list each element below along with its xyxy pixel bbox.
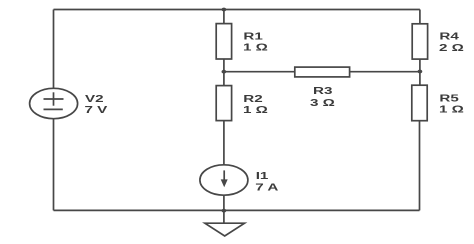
svg-text:I1: I1 — [256, 169, 269, 181]
svg-text:1 Ω: 1 Ω — [439, 103, 464, 115]
svg-text:3 Ω: 3 Ω — [310, 96, 335, 108]
svg-text:R3: R3 — [313, 84, 332, 96]
svg-text:1 Ω: 1 Ω — [243, 41, 268, 53]
svg-text:7 V: 7 V — [85, 103, 108, 115]
svg-text:1 Ω: 1 Ω — [243, 103, 268, 115]
svg-text:2 Ω: 2 Ω — [439, 41, 464, 53]
svg-text:7 A: 7 A — [255, 181, 279, 193]
svg-text:R4: R4 — [439, 30, 459, 42]
